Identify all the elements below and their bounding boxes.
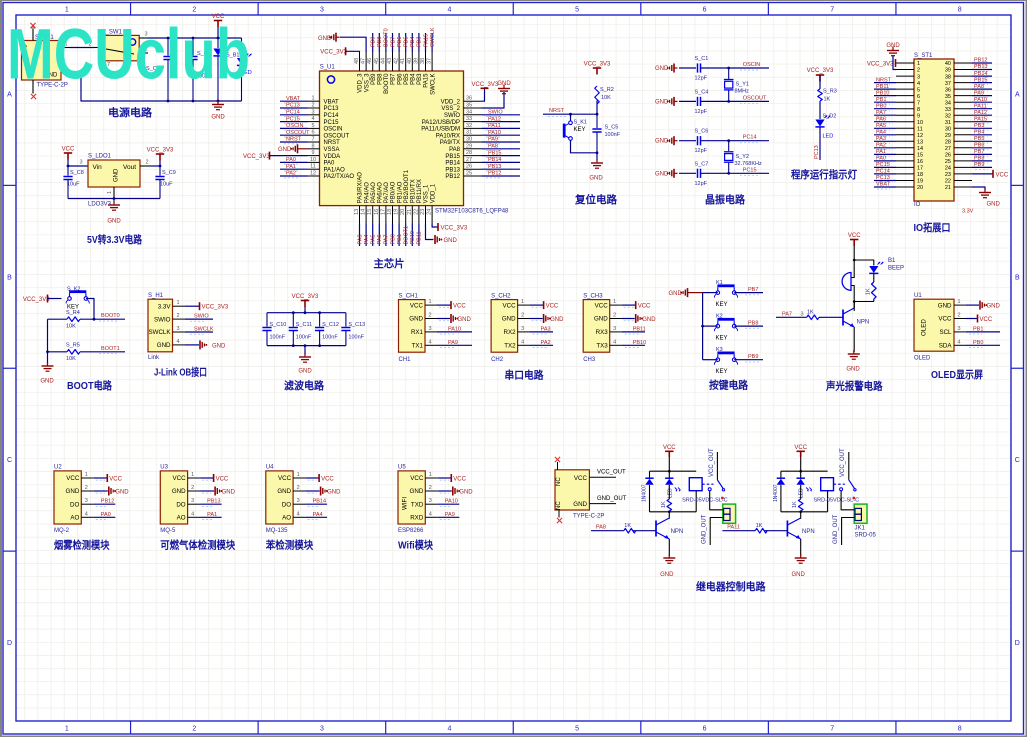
svg-text:PA3: PA3 [541, 326, 551, 332]
svg-text:27: 27 [945, 146, 951, 152]
svg-text:VCC_OUT: VCC_OUT [840, 448, 846, 477]
svg-text:SWIO: SWIO [194, 314, 209, 320]
svg-text:WIFI: WIFI [402, 497, 409, 510]
svg-text:27: 27 [466, 157, 472, 163]
junction [596, 113, 599, 116]
svg-text:2: 2 [85, 485, 88, 491]
wire emitter [668, 539, 670, 556]
svg-text:13: 13 [917, 140, 923, 146]
svg-text:RXD: RXD [410, 515, 424, 522]
svg-text:KEY: KEY [716, 336, 728, 342]
svg-text:PA7: PA7 [384, 235, 390, 245]
chip left wires and net labels [280, 96, 310, 178]
capacitor S_C9 10uF [155, 166, 175, 199]
power port VCC at U5 [438, 477, 451, 479]
svg-text:BOOT0: BOOT0 [384, 73, 390, 94]
S_CH2 pins [502, 299, 530, 349]
svg-text:PA11: PA11 [727, 525, 740, 531]
resistor S_R2 10K [595, 86, 600, 104]
relay coil [689, 478, 702, 491]
svg-text:100nF: 100nF [270, 335, 286, 341]
svg-text:PA6/AO: PA6/AO [378, 182, 384, 204]
wire [800, 485, 802, 499]
svg-text:RX1: RX1 [411, 329, 424, 336]
svg-text:PC13: PC13 [876, 175, 890, 181]
wire [86, 299, 94, 320]
svg-text:3.3V: 3.3V [158, 303, 172, 310]
svg-text:S_R2: S_R2 [600, 87, 614, 93]
power port VCC_3V3 [584, 62, 611, 69]
junction [292, 311, 295, 314]
svg-text:GND: GND [589, 176, 603, 182]
svg-text:JK1: JK1 [855, 526, 866, 532]
svg-text:PA8: PA8 [596, 525, 606, 531]
wire [800, 512, 802, 518]
wire top rail [267, 312, 346, 314]
connector S_TC1 TYPE-C-2P [22, 35, 68, 89]
svg-text:PA9/TX: PA9/TX [440, 140, 460, 146]
ground [591, 159, 603, 168]
svg-text:23: 23 [945, 172, 951, 178]
svg-text:2: 2 [297, 485, 300, 491]
ground [848, 350, 860, 359]
svg-text:S_K2: S_K2 [67, 287, 80, 293]
svg-text:2: 2 [311, 103, 314, 109]
compile marks [202, 479, 211, 481]
svg-text:GND: GND [655, 139, 669, 145]
svg-text:2: 2 [176, 313, 179, 319]
wire [853, 246, 855, 260]
svg-text:C: C [7, 457, 12, 464]
svg-text:BOOT1: BOOT1 [101, 346, 120, 352]
svg-text:4: 4 [613, 339, 616, 345]
IO header pins [896, 61, 972, 191]
S_CH3 pins [594, 299, 622, 349]
svg-text:22: 22 [413, 209, 419, 215]
svg-text:按键电路: 按键电路 [709, 379, 748, 392]
pin 2 of S_SW1 [94, 47, 101, 49]
svg-text:GND: GND [502, 316, 516, 323]
svg-text:主芯片: 主芯片 [374, 257, 405, 270]
resistor S_R3 1K [819, 75, 821, 89]
connector TYPE-C-2P power out [555, 470, 589, 510]
svg-text:8MHz: 8MHz [735, 89, 750, 95]
svg-text:PA10/RX: PA10/RX [436, 133, 460, 139]
junction [113, 197, 116, 200]
svg-text:4: 4 [521, 339, 524, 345]
svg-text:22: 22 [945, 179, 951, 185]
wire SWCLK [185, 331, 213, 333]
svg-text:S_R3: S_R3 [823, 89, 837, 95]
module U3 MQ-5 [160, 471, 187, 524]
svg-text:32.768KHz: 32.768KHz [735, 161, 762, 167]
module U2 MQ-2 [54, 471, 81, 524]
key K2 [703, 325, 718, 327]
svg-text:VCC: VCC [638, 304, 651, 310]
wire base [819, 316, 843, 318]
svg-text:3: 3 [320, 726, 324, 733]
svg-text:7: 7 [830, 7, 834, 14]
transistor NPN [656, 518, 669, 539]
svg-text:100nF: 100nF [296, 335, 312, 341]
svg-text:33: 33 [466, 116, 472, 122]
junction [799, 511, 802, 514]
svg-text:AO: AO [70, 515, 79, 522]
junction [853, 300, 856, 303]
junction [596, 151, 599, 154]
wire PA9 [438, 516, 460, 518]
svg-text:17: 17 [380, 209, 386, 215]
svg-text:NRST: NRST [549, 108, 565, 114]
svg-text:VCC_3V3: VCC_3V3 [292, 294, 319, 300]
svg-text:SCL: SCL [939, 329, 952, 336]
resistor 1K [667, 499, 672, 511]
svg-text:PA9: PA9 [445, 512, 455, 518]
capacitor S_C7 100uF [188, 38, 212, 101]
svg-text:S_CH1: S_CH1 [399, 293, 419, 299]
svg-text:VCC: VCC [980, 317, 993, 323]
svg-text:30: 30 [466, 137, 472, 143]
svg-text:PC14: PC14 [876, 169, 890, 175]
svg-text:S_C11: S_C11 [296, 322, 312, 328]
svg-text:1K: 1K [866, 288, 872, 295]
svg-text:1: 1 [613, 299, 616, 305]
svg-text:PB8: PB8 [748, 320, 758, 326]
svg-text:PB5: PB5 [974, 136, 984, 142]
svg-text:PA11: PA11 [488, 123, 501, 129]
svg-text:PA8: PA8 [974, 84, 984, 90]
svg-text:6: 6 [703, 726, 707, 733]
svg-text:B: B [1015, 274, 1020, 281]
svg-text:S_C12: S_C12 [322, 322, 339, 328]
svg-text:NPN: NPN [802, 529, 815, 535]
svg-text:NPN: NPN [857, 320, 870, 326]
svg-text:串口电路: 串口电路 [505, 369, 544, 382]
ground [212, 101, 224, 110]
wire GND rail of power circuit [70, 72, 242, 101]
svg-text:MCUclub: MCUclub [7, 14, 250, 94]
svg-text:PB11: PB11 [633, 326, 646, 332]
svg-text:PB5: PB5 [404, 73, 410, 85]
dashed link [834, 483, 845, 485]
svg-text:PB14: PB14 [313, 499, 326, 505]
svg-text:3: 3 [79, 160, 82, 166]
svg-text:39: 39 [945, 68, 951, 74]
svg-text:TXD: TXD [411, 501, 424, 508]
resistor 1K base [624, 528, 636, 533]
svg-text:PA2: PA2 [541, 340, 551, 346]
svg-text:NPN: NPN [671, 529, 684, 535]
svg-text:100nF: 100nF [322, 335, 338, 341]
svg-text:复位电路: 复位电路 [574, 193, 617, 206]
svg-text:PB1: PB1 [973, 326, 983, 332]
svg-text:PA10: PA10 [488, 130, 501, 136]
svg-text:GND: GND [327, 489, 341, 495]
wire bottom rail [781, 511, 828, 513]
svg-text:1: 1 [429, 472, 432, 478]
compile marks [440, 479, 449, 481]
svg-text:5: 5 [311, 123, 314, 129]
svg-text:PA4/AO: PA4/AO [364, 182, 370, 204]
svg-text:CH2: CH2 [491, 357, 504, 363]
junction [701, 325, 704, 328]
svg-text:PA15: PA15 [424, 73, 430, 88]
svg-text:VCC: VCC [574, 475, 588, 482]
wire [853, 302, 855, 312]
junction [799, 470, 802, 473]
svg-text:40: 40 [407, 58, 413, 64]
svg-text:PB4: PB4 [411, 73, 417, 85]
svg-text:VBAT: VBAT [286, 96, 301, 102]
pin 2 of S_LDO1 [140, 165, 151, 167]
svg-text:PB15: PB15 [445, 154, 460, 160]
power port VCC at U2 [94, 477, 107, 479]
svg-text:S_C9: S_C9 [162, 170, 176, 176]
svg-text:PA2: PA2 [286, 171, 296, 177]
svg-text:VDD_2: VDD_2 [441, 99, 461, 105]
svg-text:38: 38 [420, 58, 426, 64]
wire PB14 [306, 503, 328, 505]
svg-text:VCC_3V3: VCC_3V3 [243, 154, 270, 160]
svg-text:2: 2 [429, 485, 432, 491]
power port VCC [663, 445, 676, 452]
svg-text:26: 26 [945, 153, 951, 159]
chip top wires and net labels [371, 27, 436, 52]
svg-text:GND: GND [497, 81, 511, 87]
svg-text:OSCOUT: OSCOUT [743, 95, 767, 101]
svg-text:2: 2 [191, 485, 194, 491]
svg-text:VCC: VCC [109, 476, 122, 482]
MCUclub logo [7, 14, 250, 94]
svg-text:12pF: 12pF [695, 181, 708, 187]
svg-text:S_R5: S_R5 [66, 343, 80, 349]
svg-text:PA3: PA3 [357, 235, 363, 245]
svg-text:Wifi模块: Wifi模块 [398, 539, 433, 552]
wire [873, 299, 875, 302]
svg-text:VSS_2: VSS_2 [441, 106, 460, 112]
svg-text:PA0: PA0 [286, 157, 296, 163]
svg-text:SRD-05VDC-SL-C: SRD-05VDC-SL-C [814, 497, 860, 503]
svg-text:PB12: PB12 [488, 171, 501, 177]
svg-text:VDD_3: VDD_3 [358, 73, 364, 93]
svg-text:LED: LED [799, 488, 805, 498]
svg-text:4: 4 [448, 726, 452, 733]
svg-text:2: 2 [917, 68, 920, 74]
svg-text:C: C [1015, 457, 1020, 464]
wire [571, 140, 598, 153]
svg-text:Vout: Vout [123, 164, 136, 171]
svg-text:PC14: PC14 [324, 113, 340, 119]
svg-text:PB4: PB4 [974, 130, 984, 136]
svg-text:GND: GND [459, 489, 473, 495]
svg-text:AO: AO [282, 515, 291, 522]
wire [873, 274, 875, 282]
svg-text:21: 21 [407, 209, 413, 215]
svg-text:VCC_3V3: VCC_3V3 [584, 62, 611, 68]
svg-text:GND: GND [277, 488, 291, 495]
capacitor S_C11 100nF [289, 313, 313, 346]
svg-text:32: 32 [466, 123, 472, 129]
svg-text:MQ-2: MQ-2 [54, 528, 70, 534]
svg-text:PA0: PA0 [101, 512, 111, 518]
svg-text:PB5: PB5 [404, 37, 410, 47]
wire S_TC1 to S_SW1 [70, 47, 94, 49]
svg-text:PA9: PA9 [974, 90, 984, 96]
svg-text:VCC: VCC [794, 445, 807, 451]
svg-text:2: 2 [192, 7, 196, 14]
svg-text:3.3V: 3.3V [962, 209, 974, 215]
svg-text:声光报警电路: 声光报警电路 [825, 380, 883, 393]
svg-text:PA8: PA8 [488, 144, 498, 150]
wire base [633, 530, 656, 532]
svg-text:11: 11 [917, 127, 923, 133]
wire to JK pin1 [710, 491, 723, 510]
compile marks [532, 306, 542, 308]
svg-text:1: 1 [521, 299, 524, 305]
ground at S_CH3 [622, 318, 635, 320]
svg-text:6: 6 [311, 130, 314, 136]
svg-text:VCC_3V3: VCC_3V3 [867, 62, 894, 68]
wire rail [702, 293, 704, 360]
svg-text:GND: GND [40, 379, 54, 385]
resistor 1K base [755, 528, 767, 533]
svg-text:PA12/USB/DP: PA12/USB/DP [422, 120, 460, 126]
svg-text:LED: LED [667, 488, 673, 498]
svg-text:PA3/RX/AO: PA3/RX/AO [358, 172, 364, 204]
svg-text:GND: GND [655, 171, 669, 177]
svg-text:GND: GND [669, 291, 683, 297]
svg-text:S_C7: S_C7 [695, 161, 709, 167]
svg-text:VDDA: VDDA [324, 154, 341, 160]
svg-text:PB13: PB13 [207, 499, 220, 505]
svg-text:BOOT0: BOOT0 [384, 28, 390, 47]
pin 1 of S_SW1 [139, 52, 148, 54]
wire base [765, 530, 788, 532]
svg-text:GND: GND [655, 99, 669, 105]
ground at U4 [306, 490, 320, 492]
svg-text:OSCOUT: OSCOUT [286, 130, 310, 136]
OLED pins [938, 299, 966, 349]
svg-text:3: 3 [429, 498, 432, 504]
module U4 MQ-135 [266, 471, 293, 524]
svg-text:NRST: NRST [324, 140, 341, 146]
junction [159, 165, 162, 168]
wire PA4 [306, 516, 328, 518]
IO header right wires [972, 58, 992, 170]
chip bottom wires and net labels [357, 224, 422, 247]
svg-text:1: 1 [191, 472, 194, 478]
wire top rail [781, 470, 828, 472]
ground at VSS_2 [482, 92, 505, 108]
ground [108, 201, 120, 210]
wire PA1 [200, 516, 222, 518]
svg-text:PA5: PA5 [371, 235, 377, 245]
svg-text:31: 31 [466, 130, 472, 136]
junction [668, 511, 671, 514]
wire VCC_OUT [716, 452, 718, 480]
svg-text:PB10/TX: PB10/TX [411, 179, 417, 203]
wire PB10 [622, 344, 645, 346]
svg-text:20: 20 [917, 185, 923, 191]
svg-text:1K: 1K [624, 523, 631, 529]
wire PA2 [530, 344, 553, 346]
svg-text:BOOT1: BOOT1 [404, 226, 410, 245]
pin 1 GND of S_LDO1 [113, 187, 115, 199]
svg-text:PB0/AO: PB0/AO [391, 181, 397, 203]
switch arm [849, 480, 855, 489]
svg-text:1: 1 [428, 299, 431, 305]
svg-text:VDD_1: VDD_1 [430, 183, 436, 203]
wire [819, 101, 821, 119]
svg-text:PB0: PB0 [973, 340, 983, 346]
compile marks [624, 306, 634, 308]
svg-text:2: 2 [521, 313, 524, 319]
svg-text:PB9: PB9 [748, 354, 758, 360]
wire [854, 301, 874, 303]
svg-text:MQ-135: MQ-135 [266, 528, 288, 534]
svg-text:VBAT: VBAT [876, 182, 891, 188]
svg-text:PA12: PA12 [488, 116, 501, 122]
svg-text:程序运行指示灯: 程序运行指示灯 [791, 168, 857, 181]
wire [596, 153, 598, 160]
svg-text:6: 6 [703, 7, 707, 14]
svg-text:PB13: PB13 [488, 164, 501, 170]
svg-text:PB3: PB3 [417, 73, 423, 85]
svg-text:VSS_1: VSS_1 [424, 184, 430, 203]
chip right wires and net labels [482, 110, 521, 178]
svg-text:100nF: 100nF [605, 132, 621, 138]
svg-text:34: 34 [945, 100, 951, 106]
ground at S_CH2 [530, 318, 543, 320]
wire [596, 101, 598, 115]
svg-text:3: 3 [85, 498, 88, 504]
svg-text:GND: GND [594, 316, 608, 323]
svg-text:5: 5 [575, 7, 579, 14]
svg-text:S_Y1: S_Y1 [736, 82, 749, 88]
svg-text:S_C8: S_C8 [70, 170, 84, 176]
svg-text:4: 4 [917, 81, 920, 87]
svg-text:GND: GND [938, 302, 952, 309]
chip top pins 48-37 [354, 52, 436, 95]
svg-text:U4: U4 [266, 465, 274, 471]
svg-text:25: 25 [466, 171, 472, 177]
svg-text:VCC_OUT: VCC_OUT [709, 448, 715, 477]
svg-text:PB11: PB11 [417, 231, 423, 244]
op-amp U1 body STM32F103C8T6 [320, 71, 464, 206]
power port VCC at IO pin23 [972, 173, 993, 175]
svg-text:VCC: VCC [410, 302, 424, 309]
svg-text:PA4: PA4 [364, 235, 370, 245]
svg-text:4: 4 [957, 339, 960, 345]
U5 pins [410, 472, 438, 522]
LED S_B1 [226, 38, 252, 101]
wire to JK pin1 [841, 491, 854, 510]
svg-text:S_C5: S_C5 [605, 125, 619, 131]
svg-text:PB0: PB0 [876, 103, 886, 109]
svg-text:GND: GND [792, 572, 806, 578]
svg-text:PA3: PA3 [876, 136, 886, 142]
svg-text:S_CH2: S_CH2 [491, 293, 511, 299]
svg-text:PB15: PB15 [974, 77, 987, 83]
svg-text:4: 4 [176, 339, 179, 345]
svg-text:VCC: VCC [66, 475, 80, 482]
svg-text:4: 4 [428, 339, 431, 345]
svg-text:PB6: PB6 [974, 143, 984, 149]
transistor Q NPN [843, 308, 854, 327]
svg-text:48: 48 [354, 58, 360, 64]
svg-text:S_C6: S_C6 [695, 129, 709, 135]
svg-text:RX3: RX3 [596, 329, 609, 336]
